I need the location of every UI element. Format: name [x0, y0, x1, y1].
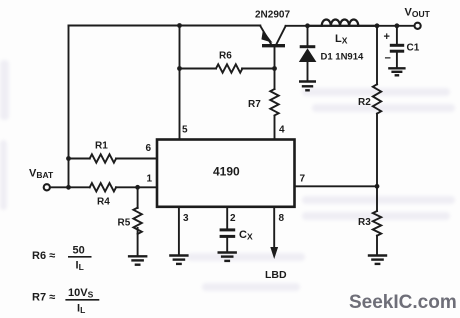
svg-text:C1: C1: [407, 43, 420, 54]
diode D1 triangle: [299, 48, 317, 62]
svg-text:LX: LX: [335, 33, 348, 46]
wire pin8: [273, 207, 275, 248]
ground (R3): [368, 256, 387, 264]
svg-text:LBD: LBD: [265, 269, 287, 281]
svg-text:D1 1N914: D1 1N914: [321, 52, 364, 63]
wire top rail right: [286, 25, 414, 27]
wire R1 row: [69, 158, 158, 160]
svg-text:50: 50: [73, 245, 85, 257]
node rail / diode: [305, 23, 310, 28]
wire R3 to ground: [376, 236, 378, 255]
node junction dots: [66, 23, 399, 190]
svg-text:−: −: [385, 53, 391, 65]
svg-text:R6: R6: [219, 51, 232, 62]
ground (capacitor CX): [218, 253, 237, 261]
wire top rail left: [69, 25, 261, 27]
resistor R1: [90, 154, 116, 162]
svg-text:R5: R5: [118, 218, 131, 229]
node rail / C1: [395, 23, 400, 28]
svg-text:6: 6: [146, 143, 152, 154]
svg-text:1: 1: [147, 174, 153, 185]
svg-text:5: 5: [182, 125, 188, 136]
wire C1 stem bottom: [396, 53, 398, 68]
ground (C1): [388, 68, 405, 75]
svg-text:R3: R3: [358, 217, 371, 228]
svg-text:8: 8: [279, 213, 285, 224]
diode D1 cathode bar: [300, 45, 316, 48]
op IC U1 4190 box: [157, 140, 295, 207]
wire R4 row: [69, 186, 158, 188]
svg-text:IL: IL: [77, 303, 85, 316]
capacitor C1 plates: [390, 45, 404, 51]
node R6 / base: [272, 66, 277, 71]
transistor Q1 base bar: [262, 44, 285, 47]
svg-text:IL: IL: [76, 260, 84, 273]
resistor R7: [270, 89, 278, 115]
formula R6: [32, 245, 92, 273]
svg-text:4: 4: [279, 125, 285, 136]
svg-text:SeekIC.com: SeekIC.com: [349, 292, 457, 313]
svg-text:R2: R2: [358, 97, 371, 108]
resistor R4: [90, 183, 116, 191]
svg-text:R6 ≈: R6 ≈: [32, 250, 55, 262]
svg-text:2: 2: [230, 213, 236, 224]
formula R7: [32, 287, 99, 315]
wire pin2: [226, 207, 228, 252]
transistor Q1 emitter arrow: [262, 31, 271, 42]
svg-text:+: +: [384, 31, 390, 43]
svg-text:7: 7: [300, 174, 306, 185]
node pin5 / R6: [177, 66, 182, 71]
svg-text:3: 3: [183, 213, 189, 224]
node VBAT riser / R1: [66, 156, 71, 161]
wire R5 stem: [137, 187, 139, 255]
svg-text:R7: R7: [248, 99, 261, 110]
svg-text:4190: 4190: [213, 165, 240, 179]
svg-text:R7 ≈: R7 ≈: [32, 292, 55, 304]
node pin7 / R2 / R3: [375, 184, 380, 189]
svg-text:2N2907: 2N2907: [255, 10, 290, 21]
wire pin7 row: [295, 185, 378, 187]
ground (pin 3): [169, 256, 188, 264]
wire R2 to pin7 node: [376, 114, 378, 187]
wire diode stem top: [307, 26, 309, 46]
wire R7 to pin4: [274, 116, 276, 140]
wire R3 stem top: [376, 186, 378, 211]
wire left vertical VBAT riser: [68, 26, 70, 188]
svg-text:CX: CX: [239, 229, 253, 242]
ground (R5): [128, 256, 147, 264]
capacitor CX plates: [220, 230, 236, 237]
svg-text:R1: R1: [95, 141, 108, 152]
wire R6 row: [180, 68, 275, 70]
wire VBAT to junction: [50, 186, 69, 188]
wire R2 stem top: [376, 26, 378, 85]
resistor R2: [373, 84, 381, 113]
wire base vertical: [274, 47, 276, 89]
resistor R6: [216, 64, 242, 72]
resistor R5: [133, 208, 141, 234]
transistor Q1 collector: [277, 26, 286, 44]
terminal VOUT: [415, 23, 421, 29]
wire diode stem bottom: [307, 62, 309, 81]
terminal VBAT: [44, 184, 50, 190]
svg-text:R4: R4: [97, 197, 110, 208]
svg-text:10VS: 10VS: [68, 287, 94, 300]
wire C1 stem top: [396, 26, 398, 44]
node rail / R2: [375, 23, 380, 28]
arrow LBD (pin 8): [270, 247, 278, 259]
node VBAT riser / R4: [66, 185, 71, 190]
svg-text:VOUT: VOUT: [405, 7, 431, 20]
node top rail / pin5: [177, 23, 182, 28]
wire pin5 riser: [179, 26, 181, 140]
node R4 / R5: [135, 185, 140, 190]
transistor Q1 emitter: [260, 26, 271, 44]
wire pin3: [178, 207, 180, 254]
ground (diode D1): [299, 82, 316, 91]
svg-text:VBAT: VBAT: [29, 168, 54, 181]
resistor R3: [373, 211, 381, 236]
inductor LX coil: [308, 25, 378, 27]
